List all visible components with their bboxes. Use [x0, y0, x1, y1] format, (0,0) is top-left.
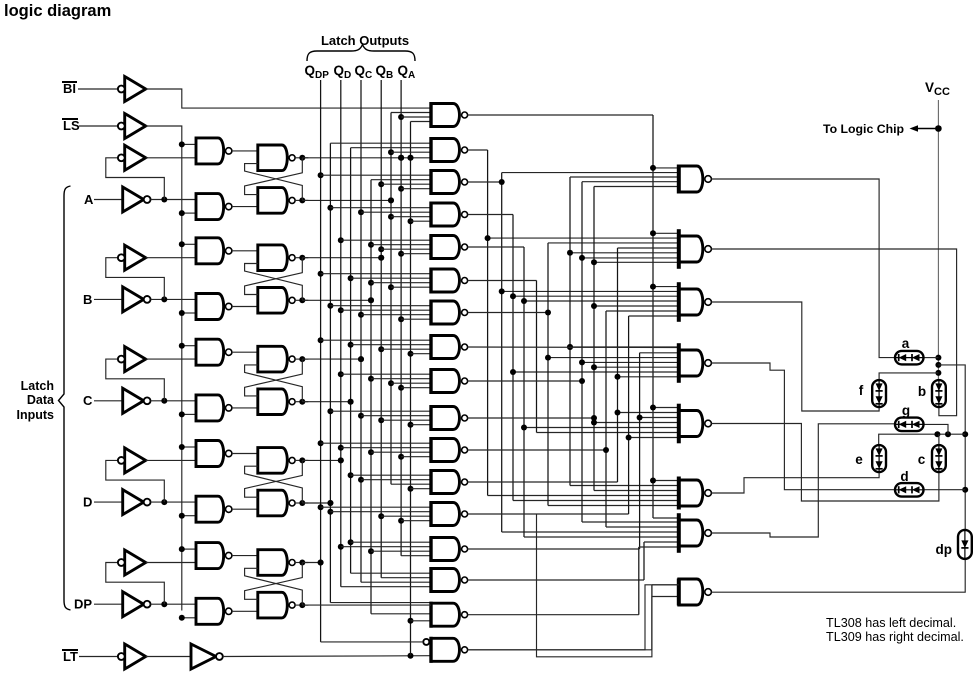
svg-text:Latch: Latch	[21, 379, 54, 393]
svg-text:Latch Outputs: Latch Outputs	[321, 33, 409, 48]
svg-text:a: a	[902, 336, 910, 351]
svg-text:TL308 has left decimal.: TL308 has left decimal.	[826, 616, 956, 630]
svg-text:e: e	[855, 452, 863, 467]
svg-text:c: c	[918, 452, 926, 467]
svg-text:logic diagram: logic diagram	[4, 2, 111, 20]
svg-text:LT: LT	[63, 649, 78, 664]
svg-text:Inputs: Inputs	[17, 408, 55, 422]
svg-text:C: C	[83, 393, 93, 408]
svg-text:f: f	[859, 383, 864, 398]
svg-text:A: A	[84, 192, 94, 207]
svg-text:Data: Data	[27, 393, 55, 407]
svg-text:LS: LS	[63, 118, 80, 133]
svg-text:B: B	[83, 292, 92, 307]
svg-text:TL309 has right decimal.: TL309 has right decimal.	[826, 630, 964, 644]
svg-text:To Logic Chip: To Logic Chip	[823, 122, 904, 136]
svg-text:D: D	[83, 495, 92, 510]
svg-text:BI: BI	[63, 81, 76, 96]
svg-text:DP: DP	[74, 597, 92, 612]
svg-text:dp: dp	[936, 542, 953, 557]
svg-text:b: b	[918, 384, 926, 399]
svg-text:d: d	[900, 469, 908, 484]
svg-text:g: g	[902, 403, 910, 418]
